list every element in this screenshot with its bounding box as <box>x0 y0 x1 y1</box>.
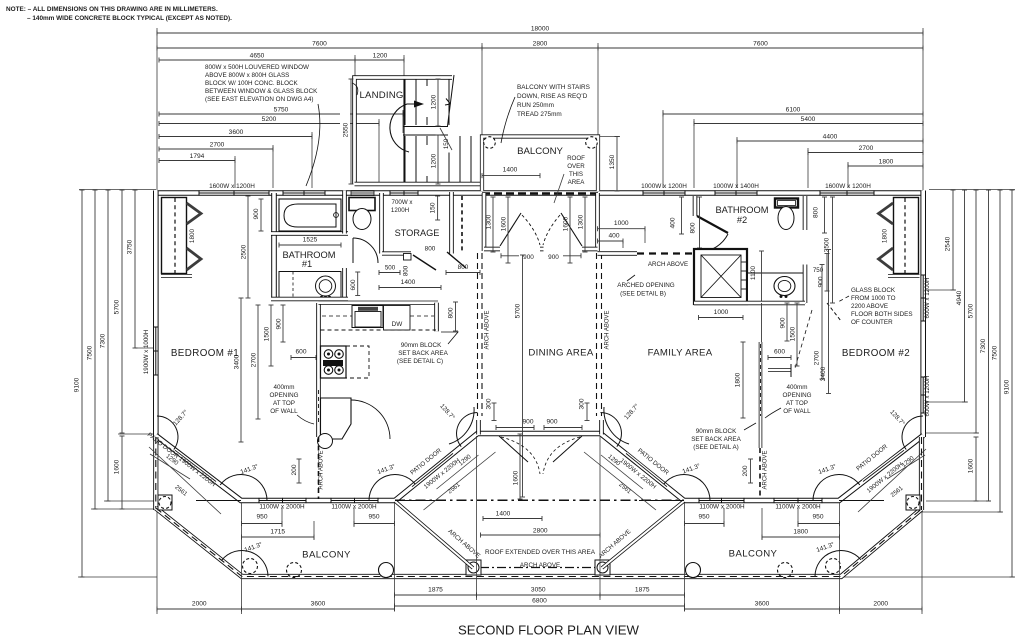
svg-text:1600: 1600 <box>513 470 520 485</box>
dimension 1350 right of top balcony <box>616 137 618 192</box>
svg-text:(SEE EAST ELEVATION ON DWG: (SEE EAST ELEVATION ON DWG A4) <box>205 96 313 103</box>
svg-text:1875: 1875 <box>428 587 443 594</box>
svg-text:NOTE: – ALL DIMENSIONS ON THIS: NOTE: – ALL DIMENSIONS ON THIS DRAWING A… <box>6 6 218 13</box>
svg-text:FROM 1000 TO: FROM 1000 TO <box>851 295 896 302</box>
svg-text:OF WALL: OF WALL <box>783 408 811 415</box>
dimension 2550 left of landing <box>350 79 352 184</box>
right vertical dimension 9100 <box>1011 190 1013 577</box>
left extension lines <box>79 189 156 191</box>
family bedroom2 dashed wall arch above <box>759 448 761 497</box>
bathroom1 left wall <box>271 193 277 299</box>
svg-text:ARCH ABOVE: ARCH ABOVE <box>605 310 611 349</box>
right vertical dimension 5700 <box>975 190 977 433</box>
stair landing box <box>355 78 453 185</box>
dims 800 750 900 right of bathroom2 <box>824 197 826 233</box>
svg-text:700W x: 700W x <box>392 199 414 206</box>
svg-text:ARCH ABOVE: ARCH ABOVE <box>763 450 769 489</box>
svg-text:1200: 1200 <box>431 153 438 168</box>
leader balcony note <box>501 97 515 143</box>
right extension lines <box>929 189 1015 191</box>
svg-text:BALCONY: BALCONY <box>517 146 563 157</box>
dim 1100 vanity <box>761 251 763 303</box>
svg-text:800: 800 <box>690 222 697 233</box>
bathroom1 sink <box>316 276 336 296</box>
dim 800 shower side <box>699 197 701 248</box>
svg-text:(SEE DETAIL A): (SEE DETAIL A) <box>693 444 739 451</box>
svg-text:1875: 1875 <box>635 587 650 594</box>
svg-text:400mm: 400mm <box>274 384 295 391</box>
dimension 300 stubs <box>493 403 495 421</box>
svg-text:STORAGE: STORAGE <box>395 228 440 238</box>
angle arc 128.7 top-right corner <box>902 416 923 450</box>
svg-text:ARCHED OPENING: ARCHED OPENING <box>617 282 674 289</box>
svg-text:3050: 3050 <box>531 587 546 594</box>
svg-text:OVER: OVER <box>567 163 585 170</box>
svg-text:BETWEEN WINDOW & GLASS BLO: BETWEEN WINDOW & GLASS BLOCK <box>205 88 318 95</box>
svg-text:1800: 1800 <box>735 372 742 387</box>
svg-text:1000: 1000 <box>714 309 729 316</box>
svg-text:OF COUNTER: OF COUNTER <box>851 319 893 326</box>
kitchen counter dashed edges <box>321 329 437 331</box>
dim 150 storage <box>437 196 439 220</box>
svg-text:6800: 6800 <box>532 598 547 605</box>
svg-text:7300: 7300 <box>980 338 987 353</box>
svg-text:3600: 3600 <box>755 601 770 608</box>
svg-text:1900W x 1000H: 1900W x 1000H <box>143 330 150 374</box>
svg-text:BLOCK W/ 100H CONC. BLOCK: BLOCK W/ 100H CONC. BLOCK <box>205 80 299 87</box>
stairs up arrow curved <box>390 104 416 152</box>
svg-text:LANDING: LANDING <box>359 90 403 101</box>
dim 1400 below storage <box>379 287 441 289</box>
svg-text:9100: 9100 <box>74 377 81 392</box>
balcony dashed column circles <box>287 563 302 578</box>
dimension 1600 balcony center <box>519 434 521 499</box>
svg-text:2800: 2800 <box>533 528 548 535</box>
window 600W upper in right wall <box>922 275 924 321</box>
window 1100W x 2000H right bay 1 <box>699 500 744 502</box>
kitchen counter right wall <box>434 303 439 332</box>
svg-text:4940: 4940 <box>956 290 963 305</box>
bathroom2 right wall upper <box>803 196 808 230</box>
dashed wall under top balcony <box>482 192 598 195</box>
svg-text:1600W x 1200H: 1600W x 1200H <box>209 183 255 190</box>
leader louvered note <box>352 83 358 95</box>
balcony outline double line with dashed centerline <box>156 508 922 577</box>
family bedroom2 opening extension <box>761 303 763 342</box>
svg-text:SET BACK AREA: SET BACK AREA <box>398 350 448 357</box>
svg-text:200: 200 <box>742 465 749 476</box>
bathroom1 bottom wall <box>271 297 348 302</box>
svg-text:1500: 1500 <box>790 326 797 341</box>
patio door break left outer diagonal <box>175 450 216 481</box>
dims 1000 400 family nook <box>598 228 646 230</box>
dim 900 tub <box>260 199 262 231</box>
storage left wall <box>379 193 384 254</box>
exterior wall left bay diagonal <box>156 434 923 501</box>
svg-text:500: 500 <box>385 265 396 272</box>
bathroom2 door leaf and arc <box>697 216 728 233</box>
kitchen wall 400mm opening dashes <box>318 390 320 425</box>
dimension 3600 2000 right <box>685 608 840 610</box>
svg-text:600: 600 <box>774 349 785 356</box>
dim 1800 wall <box>742 342 744 418</box>
svg-text:600W x 1200H: 600W x 1200H <box>924 376 931 417</box>
dim 2500 bathroom2 right <box>832 197 834 303</box>
svg-text:RUN 250mm: RUN 250mm <box>517 102 554 109</box>
bathroom2 vanity <box>748 273 806 303</box>
dim 600 counter <box>768 357 791 359</box>
svg-text:1300: 1300 <box>486 214 493 229</box>
right vertical dimension 1600 <box>975 437 977 501</box>
svg-text:#1: #1 <box>302 259 312 269</box>
dining left wall solid stub <box>476 420 481 435</box>
storage bottom wall <box>382 251 411 255</box>
svg-text:1200: 1200 <box>373 53 388 60</box>
svg-text:800W x 500H LOUVERED WINDO: 800W x 500H LOUVERED WINDOW <box>205 64 309 71</box>
left vertical dimension 3750 <box>134 190 136 348</box>
leader 400mm left <box>297 415 314 424</box>
arch above dash-dot line center balcony <box>480 567 598 569</box>
right vertical dimension 7500 <box>999 190 1001 512</box>
svg-text:800: 800 <box>425 246 436 253</box>
hall dims 1300 1600 left <box>492 197 494 252</box>
svg-text:ARCH ABOVE: ARCH ABOVE <box>319 450 325 489</box>
dimension 2000 3600 left <box>157 608 242 610</box>
svg-text:(SEE DETAIL B): (SEE DETAIL B) <box>620 291 666 298</box>
svg-text:1800: 1800 <box>189 228 196 243</box>
svg-text:400mm: 400mm <box>787 384 808 391</box>
left vertical dimension 7300 <box>107 190 109 501</box>
svg-text:1715: 1715 <box>270 529 285 536</box>
svg-text:– 140mm WIDE CONCRETE BLOCK TY: – 140mm WIDE CONCRETE BLOCK TYPICAL (EXC… <box>27 15 232 22</box>
dimension 1875 3050 1875 <box>395 594 477 596</box>
roof dash-dot line across center bay <box>395 499 684 501</box>
bathtub alcove bottom wall <box>271 231 348 236</box>
kitchen left wall <box>316 303 321 437</box>
dimension 1200 stairs lower <box>437 135 439 184</box>
svg-text:900: 900 <box>522 419 533 426</box>
dimension 1400 top balcony <box>482 175 540 177</box>
bedroom1 closet <box>162 198 187 274</box>
svg-text:ROOF: ROOF <box>567 155 585 162</box>
svg-text:90mm BLOCK: 90mm BLOCK <box>696 428 737 435</box>
svg-text:1100W x 2000H: 1100W x 2000H <box>775 504 821 511</box>
top balcony walls <box>482 137 598 192</box>
patio swing arc dining <box>449 407 474 444</box>
svg-text:BATHROOM: BATHROOM <box>715 205 768 215</box>
dim 800 kitchen right <box>455 302 457 331</box>
svg-text:300: 300 <box>579 398 586 409</box>
window 1000W x 1200H top wall <box>643 192 685 194</box>
dimension 950 1715 left bay <box>242 523 283 525</box>
left vertical dimension 7500 <box>94 190 96 509</box>
svg-text:THIS: THIS <box>569 171 583 178</box>
kitchen fridge <box>321 398 352 439</box>
hall french doors leafs <box>500 213 521 246</box>
wall right of tub <box>342 191 347 234</box>
svg-text:FAMILY AREA: FAMILY AREA <box>648 348 713 359</box>
svg-text:800: 800 <box>458 264 469 271</box>
leader 90mm C <box>441 332 458 344</box>
svg-text:1800: 1800 <box>793 529 808 536</box>
balcony left edge wall <box>153 437 158 510</box>
svg-text:7600: 7600 <box>312 41 327 48</box>
svg-text:5700: 5700 <box>114 299 121 314</box>
angle arc 141.3 left bay right <box>369 474 415 500</box>
kitchen stove <box>321 346 347 378</box>
svg-text:18000: 18000 <box>531 26 550 33</box>
svg-text:7600: 7600 <box>753 41 768 48</box>
svg-text:6100: 6100 <box>786 107 801 114</box>
stairs bottom wall <box>355 182 482 187</box>
svg-text:1200: 1200 <box>431 94 438 109</box>
dim 1000 below shower <box>699 317 744 319</box>
svg-text:BEDROOM #2: BEDROOM #2 <box>842 348 910 359</box>
hall side walls <box>482 193 487 251</box>
dimension 900 900 at center doors <box>496 427 534 429</box>
window 1100W x 2000H left bay 1 <box>259 500 306 502</box>
exterior wall right <box>920 191 926 438</box>
svg-text:OPENING: OPENING <box>782 392 811 399</box>
svg-text:SECOND FLOOR PLAN VIEW: SECOND FLOOR PLAN VIEW <box>458 623 640 638</box>
kitchen door arc <box>351 400 390 439</box>
angle arc 128.7 top-left corner <box>157 416 178 450</box>
left dimension stack 5750 5200 3600 2700 1794 <box>159 113 403 115</box>
balcony inner diagonal left arch above <box>395 501 473 568</box>
svg-text:3750: 3750 <box>127 239 134 254</box>
svg-text:2700: 2700 <box>859 145 874 152</box>
svg-text:1600W x 1200H: 1600W x 1200H <box>825 183 871 190</box>
svg-text:1794: 1794 <box>190 153 205 160</box>
svg-text:600: 600 <box>295 349 306 356</box>
svg-text:400: 400 <box>608 233 619 240</box>
bathroom2 right wall lower <box>803 265 808 304</box>
wall left of bathroom2 with arch <box>598 251 638 256</box>
balcony right edge wall dashed <box>919 437 924 510</box>
svg-text:1500: 1500 <box>264 326 271 341</box>
dining right dashed wall arch above <box>596 253 598 416</box>
kitchen counter top wall <box>319 301 439 305</box>
shower door hatch marks <box>742 261 748 263</box>
center doors leafs <box>499 436 528 462</box>
svg-text:2700: 2700 <box>814 350 821 365</box>
svg-text:900: 900 <box>253 208 260 219</box>
patio door break left inner diagonal <box>412 453 453 486</box>
bathroom2 entry wall <box>693 196 698 216</box>
dim 600 stove <box>291 357 316 359</box>
kitchen DW dishwasher <box>384 306 411 331</box>
svg-text:2540: 2540 <box>945 236 952 251</box>
patio door break right outer diagonal <box>863 450 904 481</box>
extension lines top <box>156 28 158 190</box>
svg-text:1100W x 2000H: 1100W x 2000H <box>259 504 305 511</box>
counter stub with glass block <box>768 368 791 372</box>
top balcony posts <box>484 137 496 149</box>
dims 500 800 below storage <box>379 272 400 274</box>
svg-text:BEDROOM #1: BEDROOM #1 <box>171 348 239 359</box>
svg-text:2550: 2550 <box>343 122 350 137</box>
dimension row 7600 / 2800 / 7600 <box>157 47 482 49</box>
patio door break right inner diagonal <box>626 453 667 486</box>
svg-text:1000W x 1400H: 1000W x 1400H <box>713 183 759 190</box>
leader 90mm A <box>744 423 756 430</box>
svg-text:AREA: AREA <box>568 179 586 186</box>
svg-text:ARCH ABOVE: ARCH ABOVE <box>648 261 688 268</box>
exterior wall left <box>153 191 159 438</box>
svg-text:5700: 5700 <box>968 303 975 318</box>
svg-text:950: 950 <box>698 514 709 521</box>
svg-text:5200: 5200 <box>262 116 277 123</box>
dim 400 vertical door offset <box>681 197 683 234</box>
svg-text:AT TOP: AT TOP <box>786 400 808 407</box>
svg-text:OF WALL: OF WALL <box>270 408 298 415</box>
leader glass block <box>795 296 849 368</box>
toilet 2 <box>775 199 798 208</box>
svg-text:2500: 2500 <box>824 237 831 252</box>
svg-text:3400: 3400 <box>820 366 827 381</box>
bathroom1 vanity counter <box>279 272 341 298</box>
kitchen sink <box>352 306 383 328</box>
angle arc 141.3 right bay right <box>813 475 860 501</box>
svg-text:1350: 1350 <box>609 154 616 169</box>
hall dims 1300 1600 right <box>584 197 586 252</box>
bathroom2 sink <box>774 277 795 296</box>
kitchen pantry dashed box <box>346 346 369 378</box>
svg-text:1000W x 1200H: 1000W x 1200H <box>641 183 687 190</box>
svg-text:90mm BLOCK: 90mm BLOCK <box>401 342 442 349</box>
svg-text:DINING AREA: DINING AREA <box>528 348 593 359</box>
dim 200 right wall <box>750 459 752 483</box>
svg-text:DOWN, RISE AS REQ’D: DOWN, RISE AS REQ’D <box>517 93 588 100</box>
closet2 bottom ledge <box>888 274 920 278</box>
balcony inner diagonal right arch above <box>602 501 684 568</box>
svg-text:4650: 4650 <box>250 53 265 60</box>
svg-text:150: 150 <box>430 202 437 213</box>
svg-text:1400: 1400 <box>401 279 416 286</box>
dimension 2800 center <box>481 534 601 536</box>
svg-text:7500: 7500 <box>87 345 94 360</box>
storage stair-side dashed line <box>461 196 463 253</box>
storage right wall <box>449 192 454 254</box>
dim 800 understair door <box>446 272 480 274</box>
svg-text:2800: 2800 <box>533 41 548 48</box>
balcony corner post right <box>906 495 920 510</box>
balcony post left-center <box>466 560 481 575</box>
storage door leafs <box>413 255 436 270</box>
svg-text:800: 800 <box>403 265 410 276</box>
dim 5700 dining <box>522 255 524 497</box>
stairs lower flight treads <box>404 136 406 183</box>
toilet 1 <box>349 198 375 211</box>
svg-text:FLOOR BOTH SIDES: FLOOR BOTH SIDES <box>851 311 913 318</box>
svg-text:300: 300 <box>486 398 493 409</box>
svg-text:OPENING: OPENING <box>269 392 298 399</box>
svg-text:1000: 1000 <box>614 220 629 227</box>
dimension 6800 <box>395 605 685 607</box>
svg-text:4400: 4400 <box>823 134 838 141</box>
svg-text:DW: DW <box>392 321 404 328</box>
window above tub in top wall <box>283 192 325 194</box>
dim 200 below kitchen wall <box>298 459 300 483</box>
right vertical dimension 4940 <box>964 190 966 402</box>
angle arc 128.7 center-right corner <box>601 413 622 447</box>
window 1900W x 1000H in left wall <box>155 327 157 375</box>
angle arc 141.3 balcony right corner <box>815 551 861 577</box>
shaded vent above toilet <box>351 191 374 196</box>
right dimension stack 6100 5400 4400 2700 1800 <box>663 113 923 115</box>
dims right side 900 1500 2700 3400 <box>786 303 788 341</box>
svg-text:900: 900 <box>780 317 787 328</box>
svg-text:900: 900 <box>818 276 825 287</box>
svg-text:1100W x 2000H: 1100W x 2000H <box>331 504 377 511</box>
left vertical dimension 5700 <box>121 190 123 433</box>
svg-text:BALCONY: BALCONY <box>302 550 351 561</box>
stairs mid landing lines <box>403 126 448 128</box>
svg-text:1100: 1100 <box>750 266 757 281</box>
svg-text:2500: 2500 <box>241 244 248 259</box>
window 1000W x 1400H top wall <box>715 192 757 194</box>
svg-text:2000: 2000 <box>873 601 888 608</box>
window 600W lower in right wall <box>922 377 924 413</box>
svg-text:1300: 1300 <box>578 214 585 229</box>
stairs left boundary <box>403 79 405 183</box>
wall right of vanity <box>342 268 347 299</box>
angle arc 128.7 center-left corner <box>457 413 478 447</box>
svg-text:ARCH ABOVE: ARCH ABOVE <box>485 310 491 349</box>
svg-text:5750: 5750 <box>274 107 289 114</box>
svg-text:9100: 9100 <box>1004 379 1011 394</box>
svg-text:2700: 2700 <box>210 142 225 149</box>
bathroom2 bottom wall <box>694 301 805 306</box>
svg-text:TREAD 275mm: TREAD 275mm <box>517 111 562 118</box>
svg-text:1600: 1600 <box>114 459 121 474</box>
left vertical dimension 9100 <box>81 190 83 577</box>
dims left of kitchen 900 1500 2700 3400 2500 <box>247 196 249 298</box>
svg-text:2200 ABOVE: 2200 ABOVE <box>851 303 888 310</box>
hall french doors dashed arcs <box>522 215 540 245</box>
bathroom1 door arc <box>353 238 378 263</box>
dimension 1200 stairs upper <box>437 79 439 126</box>
svg-text:1525: 1525 <box>303 237 318 244</box>
svg-text:ABOVE 800W x 800H GLASS: ABOVE 800W x 800H GLASS <box>205 72 289 79</box>
stairs upper flight treads <box>404 79 406 125</box>
svg-text:1800: 1800 <box>879 159 894 166</box>
svg-text:1400: 1400 <box>503 167 518 174</box>
svg-text:7500: 7500 <box>992 345 999 360</box>
leader roof over this area <box>554 174 564 203</box>
svg-text:900: 900 <box>546 419 557 426</box>
dim 1525 tub <box>279 244 341 246</box>
right vertical dimension 2540 <box>952 190 954 290</box>
svg-text:900: 900 <box>276 318 283 329</box>
leader arched opening B <box>627 275 635 281</box>
hall dim 900 900 below wall <box>501 255 536 257</box>
svg-text:BALCONY WITH STAIRS: BALCONY WITH STAIRS <box>517 84 590 91</box>
svg-text:1100W x 2000H: 1100W x 2000H <box>699 504 745 511</box>
svg-text:1800: 1800 <box>882 228 889 243</box>
svg-text:7300: 7300 <box>100 333 107 348</box>
closet1 bottom ledge <box>161 274 192 278</box>
kitchen dashed wall below arch above <box>318 437 320 499</box>
svg-text:2000: 2000 <box>192 601 207 608</box>
svg-text:SET BACK AREA: SET BACK AREA <box>691 436 741 443</box>
svg-text:1200H: 1200H <box>391 207 409 214</box>
leader 400mm right <box>765 408 781 418</box>
svg-text:900: 900 <box>548 254 559 261</box>
family bedroom2 wall lower 90mm <box>759 342 763 448</box>
bottom extension lines <box>156 512 158 614</box>
dimension 18000 overall width <box>157 32 923 34</box>
